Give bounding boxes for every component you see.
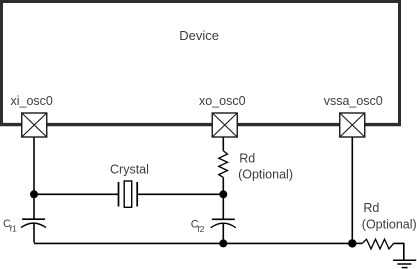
wire Cf1 lower leg <box>33 224 35 243</box>
wire Cf2 lower leg <box>222 224 224 244</box>
node vssa junction <box>348 239 356 247</box>
wire resistor to ground <box>394 243 404 259</box>
device outline <box>2 2 400 125</box>
capacitor Cf1 top plate <box>22 218 45 220</box>
resistor Rd (horizontal, right) <box>352 242 362 244</box>
svg-text:(Optional): (Optional) <box>362 218 417 232</box>
node Cf2 bottom junction <box>219 239 227 247</box>
svg-text:Rd: Rd <box>239 152 255 166</box>
svg-text:Rd: Rd <box>363 201 379 215</box>
wire xo_osc0 upper leg <box>222 137 224 151</box>
wire crystal right lead <box>137 193 223 195</box>
capacitor Cf2 curved plate <box>211 223 236 228</box>
node xi junction <box>30 190 38 198</box>
pin xi_osc0 <box>22 113 47 137</box>
node xo junction <box>219 190 227 198</box>
pin vssa_osc0 <box>340 113 365 137</box>
resistor Rd (vertical, below xo_osc0) <box>219 151 228 178</box>
wire bottom bus <box>34 242 352 244</box>
crystal Y1 right plate <box>136 182 138 207</box>
crystal Y1 left plate <box>118 182 120 207</box>
pin xo_osc0 <box>212 113 237 137</box>
wire crystal left lead <box>34 193 119 195</box>
svg-text:xi_osc0: xi_osc0 <box>11 94 53 108</box>
capacitor Cf2 top plate <box>212 218 235 220</box>
ground <box>393 259 416 261</box>
svg-text:Device: Device <box>179 28 219 43</box>
svg-text:vssa_osc0: vssa_osc0 <box>324 94 383 108</box>
wire xi_osc0 vertical leg <box>33 137 35 219</box>
svg-text:f2: f2 <box>197 224 204 234</box>
svg-text:f1: f1 <box>10 224 17 234</box>
wire xo_osc0 lower leg <box>222 177 224 218</box>
crystal Y1 body <box>124 181 132 207</box>
device bottom edge <box>0 123 401 126</box>
svg-text:Crystal: Crystal <box>110 162 149 176</box>
wire vssa_osc0 vertical leg <box>351 137 353 243</box>
svg-text:(Optional): (Optional) <box>238 168 293 182</box>
capacitor Cf1 curved plate <box>21 223 46 228</box>
svg-text:xo_osc0: xo_osc0 <box>199 94 246 108</box>
